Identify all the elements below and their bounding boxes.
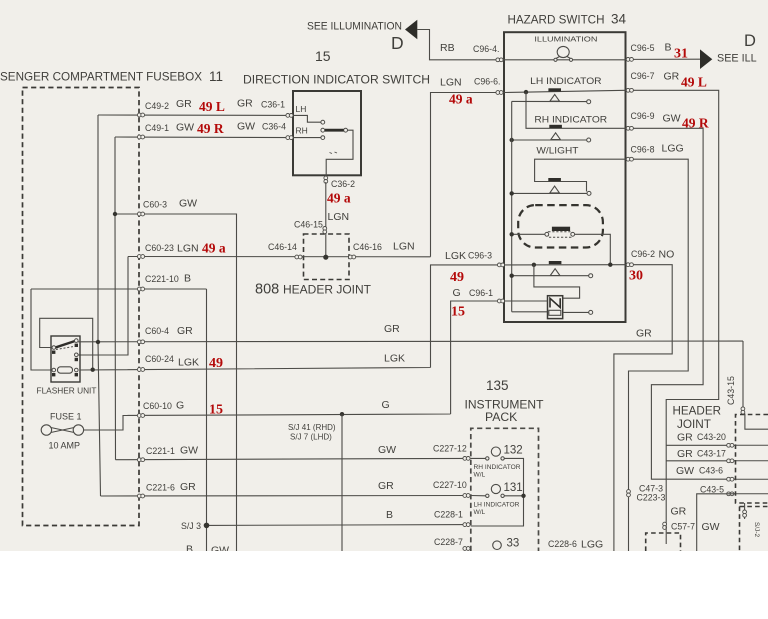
flasher armature alternate position (dashed) [56,347,74,350]
header joint 808 (dashed box) [304,234,350,280]
wire feed to hazard flasher element [534,265,580,298]
flasher timing element (rounded) [58,367,73,373]
svg-text:SEE ILL: SEE ILL [717,53,757,65]
hazard relay terminals [545,232,549,236]
connector C43-17 [727,459,734,463]
svg-text:C49-2: C49-2 [145,101,169,111]
wire C43-5 into joint [736,493,768,495]
svg-text:C96-8: C96-8 [631,145,655,155]
fuse 1 symbol [41,425,83,435]
junction relay drop at C96-2 row [608,263,612,267]
wire GR bus inside fusebox (C49-2 / C60-4 / C221-6) [98,115,101,496]
connector C60-4 [137,340,144,344]
svg-text:C96-2: C96-2 [631,249,655,259]
wire flasher B pin loop to LGK junction [40,318,93,369]
svg-text:DIRECTION INDICATOR SWITCH: DIRECTION INDICATOR SWITCH [243,73,430,87]
connector C227-10 [463,494,470,498]
hazard relay (dashed rounded outline) [518,205,603,247]
connector C96-4 [496,58,503,62]
svg-text:GW: GW [663,113,681,125]
direction switch wiper bar [325,129,344,132]
svg-text:HEADER JOINT: HEADER JOINT [283,283,372,297]
svg-text:C49-1: C49-1 [145,123,169,133]
connector C49-2 [137,113,144,117]
hazard switch 34 box [504,32,626,322]
junction common vertical at W/LIGHT branch [510,191,514,195]
connector C221-6 [137,494,144,498]
junction GR bus at C60-4 [96,340,100,344]
svg-text:GW: GW [237,121,255,133]
connector C228-1 [463,523,470,527]
wire G drop to S/J 41 [341,414,343,551]
wire RH feed drop and RH row to C96-9 [526,92,626,128]
wire W/LIGHT lower branch to terminal [512,192,587,194]
svg-text:W/L: W/L [474,509,486,516]
connector lower right joint [743,510,747,517]
wire C43-17 into joint [736,460,768,462]
wire G row into flasher element [504,300,548,302]
svg-text:C96-1: C96-1 [469,288,493,298]
wire link between right joint boxes [744,503,746,519]
wire B from fusebox C221-10 to S/J 3 junction and C228-1 [31,289,471,551]
svg-text:31: 31 [674,47,688,62]
wire GR into C57-7 box [665,526,667,544]
svg-text:RH: RH [296,126,308,136]
svg-text:C227-12: C227-12 [433,444,467,454]
svg-text:B: B [184,273,191,285]
wire GW bus inside fusebox (C49-1 / C60-3 / C221-1) [114,137,117,460]
svg-text:JOINT: JOINT [677,417,712,431]
arrow to SEE ILLUMINATION (points left) [405,20,417,40]
wire RH contact feed inside direction switch [293,137,321,139]
svg-text:C43-20: C43-20 [697,432,726,442]
wire NO from hazard C96-2 down off-page [614,265,672,551]
connector C46-14 [295,255,302,259]
connector C96-5 [626,58,633,62]
svg-text:131: 131 [504,482,523,494]
svg-text:GR: GR [636,328,652,340]
flasher pin pads [52,344,78,377]
junction S/J 3 [204,523,210,529]
wire flasher element output to terminal [563,311,589,313]
svg-text:49 R: 49 R [197,121,224,136]
wire LH lower branch to terminal [512,100,587,102]
svg-text:49 R: 49 R [682,116,709,131]
svg-text:S/J 41 (RHD): S/J 41 (RHD) [288,423,336,432]
hazard flasher element box [548,296,563,319]
svg-text:GW: GW [378,444,396,456]
wire W/LIGHT row from C96-8 [535,159,626,191]
junction in 808 header joint [323,255,328,260]
hazard flasher element resistor [549,310,561,315]
junction GW bus at C60-3 [113,212,117,216]
svg-text:C60-24: C60-24 [145,354,174,364]
connector C60-10 [137,414,144,418]
svg-text:GR: GR [237,98,253,110]
svg-text:LH INDICATOR: LH INDICATOR [474,502,520,509]
svg-text:GR: GR [177,325,193,337]
wire through hazard relay to C96-2 drop [512,234,611,264]
svg-text:C221-10: C221-10 [145,274,179,284]
svg-text:FUSE 1: FUSE 1 [50,412,82,422]
svg-text:10 AMP: 10 AMP [49,441,81,451]
wire GR from hazard C96-7 to header joint C43-20/C43-17/C57-7 [626,90,736,526]
connector C36-2 [324,176,328,183]
terminal hazard bottom branch [589,274,593,278]
svg-text:RB: RB [440,42,455,54]
movement dashes inside direction switch [330,152,338,154]
wire GW from fusebox C221-1 to pack C227-12 [116,458,471,459]
svg-text:LH INDICATOR: LH INDICATOR [530,76,601,86]
svg-text:SEE ILLUMINATION: SEE ILLUMINATION [307,21,402,33]
svg-text:C96-9: C96-9 [631,111,655,121]
terminal RH branch [587,138,591,142]
direction switch wiper contact terminals [321,120,325,124]
connector C96-6 [496,91,503,95]
svg-text:C96-7: C96-7 [631,71,655,81]
svg-text:132: 132 [504,445,523,457]
svg-text:C46-16: C46-16 [353,242,382,252]
junction common vertical at bottom branch [510,274,514,278]
svg-text:49 L: 49 L [199,99,225,114]
wire GR from flasher A pin via C60-4 to C43-15 (long) [78,341,743,415]
connector C43-6 [727,477,734,481]
svg-text:GR: GR [664,71,680,83]
svg-text:C43-17: C43-17 [697,449,726,459]
switch W/LIGHT contact [548,178,561,193]
wire hazard bottom row C96-3 to C96-2 [504,264,626,266]
svg-text:GR: GR [384,323,400,335]
svg-text:LGN: LGN [393,241,415,253]
switch hazard main contact [549,261,562,276]
wire RH indicator warning lamp row (132) [471,458,524,526]
svg-text:30: 30 [629,269,643,284]
svg-text:ILLUMINATION: ILLUMINATION [534,35,597,44]
wire GW from fusebox C49-1 to C36-4 [115,136,293,139]
connector C221-10 [137,287,144,291]
svg-text:C36-4: C36-4 [262,122,286,132]
connector C96-3 [497,263,504,267]
svg-text:GW: GW [180,445,198,457]
svg-text:15: 15 [209,403,223,418]
header joint C57-7 (dashed box, cut) [646,533,681,551]
svg-text:808: 808 [255,282,279,298]
warning lamp 131 terminals [486,494,489,497]
wire G from fuse 1 via C60-10 to hazard C96-1 [84,301,504,430]
junction flasher loop on LGK row [91,368,95,372]
svg-text:S/J-2: S/J-2 [753,522,760,538]
lower right joint (dashed box, clipped) [740,507,768,552]
connector C96-1 [497,299,504,303]
svg-text:LGN: LGN [328,211,350,223]
svg-text:W/LIGHT: W/LIGHT [536,146,579,156]
connector C96-2 [626,263,633,267]
svg-text:S/J 3: S/J 3 [181,521,201,531]
svg-text:C43-5: C43-5 [700,485,724,495]
svg-text:49 a: 49 a [327,191,351,206]
svg-text:B: B [386,509,393,521]
svg-text:GW: GW [179,198,197,210]
svg-text:GR: GR [378,480,394,492]
svg-text:C228-1: C228-1 [434,510,463,520]
wire B from hazard C96-5 to SEE ILL arrow [626,58,701,60]
wire C43-5 stub down off-page [697,494,736,551]
svg-text:GR: GR [671,506,687,518]
connector C49-1 [137,135,144,139]
svg-text:W/L: W/L [474,472,486,479]
svg-text:RH INDICATOR: RH INDICATOR [534,115,607,125]
junction flasher feed takeoff [532,263,536,267]
svg-text:C227-10: C227-10 [433,480,467,490]
svg-text:C60-10: C60-10 [143,401,172,411]
header joint main (dashed box, clipped right) [736,415,768,504]
svg-text:C43-6: C43-6 [699,466,723,476]
connector C46-16 [349,255,356,259]
wire LGN drop to flasher unit P terminal [76,257,128,356]
svg-text:C96-5: C96-5 [631,43,655,53]
connector C228-7 (cut) [463,547,470,551]
junction S/J 41 takeoff on G wire [340,412,344,416]
hazard relay contact block [552,227,570,231]
svg-text:RH INDICATOR: RH INDICATOR [474,464,521,471]
svg-text:HEADER: HEADER [673,404,722,418]
wire LH indicator row C96-6 to C96-7 in hazard [504,90,626,92]
hazard flasher element zigzag [550,298,560,307]
svg-text:GW: GW [702,521,720,533]
junction lamp return at 131 row [521,494,525,498]
connector C43-5 [727,492,734,496]
svg-text:GR: GR [677,448,693,460]
svg-text:C223-3: C223-3 [637,493,666,503]
arrow to SEE ILL (points right) [700,49,712,69]
wire common vertical into flasher element [512,311,548,313]
wire LH contact feed inside direction switch [293,115,321,122]
wire hazard bottom lower branch to terminal [512,275,589,277]
warning lamp 33 bulb (cut) [493,541,502,550]
wire B to flasher unit ground pin [31,289,51,370]
wire GW from hazard C96-9 to header joint C43-6 [626,128,736,479]
svg-text:33: 33 [507,538,520,550]
flasher pin terminals [52,346,56,350]
instrument pack 135 (dashed box) [471,428,539,551]
wire C43-6 into joint [736,478,768,480]
wire LGN from C36-2 to C46-15 of 808 header joint [325,182,327,257]
terminal flasher element output [589,310,593,314]
passenger compartment fusebox 11 (dashed outline) [23,88,140,526]
svg-text:S/J 7 (LHD): S/J 7 (LHD) [290,433,332,442]
svg-text:C228-7: C228-7 [434,537,463,547]
svg-text:G: G [382,399,390,411]
junction LH row to RH feed [524,90,528,94]
svg-text:G: G [176,400,184,412]
connector C60-23 [137,255,144,259]
wire C43-20 into joint [736,444,768,446]
svg-text:34: 34 [611,12,627,27]
junction common vertical at RH branch [510,138,514,142]
connector C227-12 [463,457,470,461]
switch RH indicator contact [549,125,562,140]
wire GR from fusebox C221-6 to pack C227-10 [101,495,471,498]
svg-text:GR: GR [180,481,196,493]
wire GR from fusebox C49-2 to C36-1 [98,114,293,116]
svg-text:C57-7: C57-7 [671,522,695,532]
connector C43-20 [727,443,734,447]
illumination lamp leg terminals [554,58,557,61]
svg-text:LGK: LGK [384,353,405,365]
svg-text:D: D [391,33,404,53]
connector C96-7 [626,88,633,92]
svg-text:D: D [744,32,756,50]
wire GW from fusebox C60-3 down to off-page [115,214,237,551]
svg-text:49: 49 [209,356,223,371]
svg-text:GW: GW [176,122,194,134]
connector C96-9 [626,126,633,130]
svg-text:B: B [665,42,672,54]
svg-text:C60-4: C60-4 [145,326,169,336]
svg-text:C60-3: C60-3 [143,200,167,210]
connector C47-3 / C223-3 [627,490,631,497]
flasher relay armature [55,341,76,348]
svg-text:C228-6: C228-6 [548,539,577,549]
svg-text:LGN: LGN [177,243,199,255]
svg-text:G: G [453,287,461,299]
warning lamp 132 terminals [486,457,489,460]
flasher unit box [51,336,80,382]
svg-text:49: 49 [450,270,464,285]
wire LGK from flasher L pin via C60-24 to hazard C96-3 [80,265,504,370]
wire RB from SEE ILLUMINATION arrow to hazard C96-4 [417,30,504,60]
svg-text:C36-1: C36-1 [261,100,285,110]
svg-text:C221-6: C221-6 [146,483,175,493]
svg-text:15: 15 [451,305,465,320]
scan cut edge [0,551,768,614]
connector C221-1 [137,458,144,462]
svg-text:SENGER COMPARTMENT FUSEBOX: SENGER COMPARTMENT FUSEBOX [0,70,202,84]
wire LGN from fusebox C60-23 through 808 joint to hazard C96-6 [128,93,504,257]
svg-text:PACK: PACK [485,410,517,424]
warning lamp 131 bulb [491,484,500,493]
connector C60-3 [137,212,144,216]
svg-text:C60-23: C60-23 [145,243,174,253]
svg-text:C46-14: C46-14 [268,242,297,252]
warning lamp 132 bulb [491,447,500,456]
connector C57-7 [663,522,667,529]
svg-text:C43-15: C43-15 [726,376,736,405]
svg-text:LGK: LGK [178,357,199,369]
svg-text:C96-6.: C96-6. [474,77,500,87]
terminal LH branch [587,100,591,104]
connector C60-24 [137,368,144,372]
terminal W/LIGHT branch [587,191,591,195]
connector C36-4 [286,136,293,140]
junction common vertical at relay row [510,232,514,236]
connector C36-1 [286,114,293,118]
svg-text:LGG: LGG [581,539,603,551]
direction indicator switch box [293,91,361,175]
svg-text:GW: GW [676,465,694,477]
svg-text:FLASHER UNIT: FLASHER UNIT [37,386,97,396]
connector C46-15 [323,227,327,234]
svg-text:C96-3: C96-3 [468,251,492,261]
svg-text:LGK: LGK [445,250,466,262]
svg-text:11: 11 [209,69,223,84]
switch LH indicator contact [548,88,561,101]
svg-text:49 a: 49 a [449,92,473,107]
wire RH lower branch to terminal [512,139,587,141]
svg-text:C221-1: C221-1 [146,446,175,456]
wire illumination row C96-4 to C96-5 inside hazard [504,59,626,61]
svg-text:GR: GR [176,98,192,110]
svg-text:HAZARD SWITCH: HAZARD SWITCH [508,13,605,27]
svg-text:15: 15 [315,48,331,64]
wire wiper to C36-2 inside direction switch [326,130,353,175]
svg-text:135: 135 [486,378,509,393]
svg-text:C36-2: C36-2 [331,179,355,189]
svg-text:LH: LH [296,104,307,114]
svg-text:49 a: 49 a [202,241,226,256]
svg-text:C96-4.: C96-4. [473,44,499,54]
svg-text:C46-15: C46-15 [294,220,323,230]
svg-text:49 L: 49 L [681,75,707,90]
connector C43-15 [741,407,745,414]
wire LGG from hazard C96-8 to C47-3/C223-3 [626,159,689,551]
wire LH indicator warning lamp row (131) [471,495,524,497]
svg-text:NO: NO [659,249,675,261]
connector C96-8 [626,157,633,161]
svg-text:LGN: LGN [440,77,462,89]
wire inside header joint from C43-15 [743,414,768,429]
svg-text:GR: GR [677,432,693,444]
svg-text:LGG: LGG [662,143,684,155]
wire hazard common vertical feed [511,101,513,311]
illumination lamp symbol [556,46,571,58]
